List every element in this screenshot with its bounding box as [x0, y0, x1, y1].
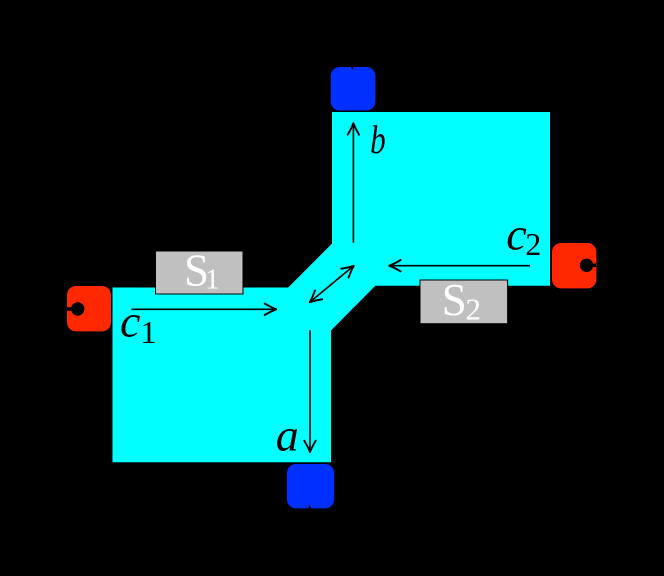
label c2	[506, 208, 541, 262]
arrow a (downward)	[304, 330, 315, 452]
svg-text:2: 2	[525, 226, 541, 262]
gray sample box S1	[156, 251, 244, 294]
svg-text:b: b	[370, 117, 386, 162]
double-headed diagonal arrow (beam splitter coupling)	[310, 266, 354, 303]
red connector port right (input c2)	[552, 243, 596, 288]
svg-text:1: 1	[205, 263, 220, 295]
svg-text:2: 2	[466, 292, 482, 327]
arrow c2 (right to left)	[389, 260, 530, 271]
label c1	[120, 295, 157, 350]
arrow c1 (left to right)	[132, 304, 277, 315]
blue connector port bottom (output a)	[287, 464, 334, 508]
label S2	[442, 275, 481, 326]
svg-text:S: S	[442, 275, 467, 325]
red connector port left (input c1)	[67, 286, 111, 331]
svg-text:a: a	[276, 410, 299, 461]
svg-text:c: c	[506, 208, 526, 259]
svg-text:c: c	[120, 295, 140, 346]
cyan waveguide body (two squares joined by diagonal channel)	[113, 112, 551, 462]
blue connector port top (output b)	[331, 67, 376, 111]
svg-text:1: 1	[141, 314, 157, 350]
gray sample box S2	[420, 280, 508, 324]
arrow b (upward)	[348, 123, 359, 243]
label S1	[184, 245, 220, 295]
